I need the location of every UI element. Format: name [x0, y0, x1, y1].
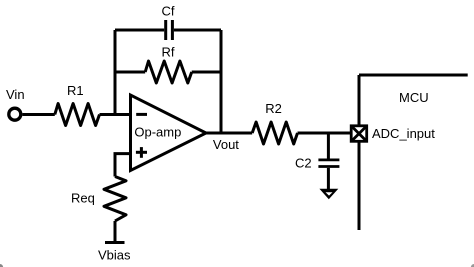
wire top Cf branch right [174, 29, 221, 32]
svg-text:Rf: Rf [162, 45, 175, 60]
MCU outline top [359, 74, 468, 77]
svg-text:ADC_input: ADC_input [372, 126, 435, 141]
op-amp minus sign [136, 113, 147, 116]
ground [319, 189, 338, 200]
svg-text:R1: R1 [67, 83, 84, 98]
wire Rf branch left [115, 71, 145, 74]
wire C2 branch down [327, 133, 330, 159]
svg-text:Op-amp: Op-amp [134, 125, 181, 140]
resistor Rf [145, 61, 192, 83]
terminal Vin [9, 108, 21, 120]
svg-text:Req: Req [71, 191, 95, 206]
op-amp plus sign [136, 151, 147, 154]
bottom-right corner mark [471, 264, 474, 267]
svg-text:C2: C2 [295, 156, 312, 171]
resistor R1 [55, 104, 100, 126]
svg-text:Vout: Vout [213, 137, 239, 152]
pin ADC_input box [351, 126, 367, 142]
wire R1 to op-amp inverting input [100, 113, 131, 116]
capacitor C2 [318, 158, 339, 161]
wire R2 to ADC pin [298, 132, 352, 135]
terminal Vbias bar [105, 241, 125, 244]
wire C2 to ground [327, 168, 330, 190]
op-amp U1 [131, 95, 207, 171]
wire non-inverting input [115, 154, 131, 177]
svg-text:Vin: Vin [6, 87, 25, 102]
svg-text:Vbias: Vbias [98, 248, 131, 263]
capacitor Cf [164, 20, 167, 40]
wire output Vout [206, 132, 252, 135]
MCU outline left vertical [358, 75, 361, 230]
resistor Req [104, 177, 126, 222]
bottom-left corner mark [0, 264, 3, 267]
wire Rf branch right [192, 71, 221, 74]
wire top Cf branch left [115, 29, 164, 32]
wire Req to Vbias [114, 221, 117, 243]
resistor R2 [252, 122, 297, 144]
wire feedback right vertical [220, 30, 223, 133]
svg-text:Cf: Cf [162, 4, 175, 19]
svg-text:MCU: MCU [399, 90, 429, 105]
wire input from Vin to R1 [22, 113, 54, 116]
svg-text:R2: R2 [265, 101, 282, 116]
wire feedback left vertical [114, 30, 117, 115]
